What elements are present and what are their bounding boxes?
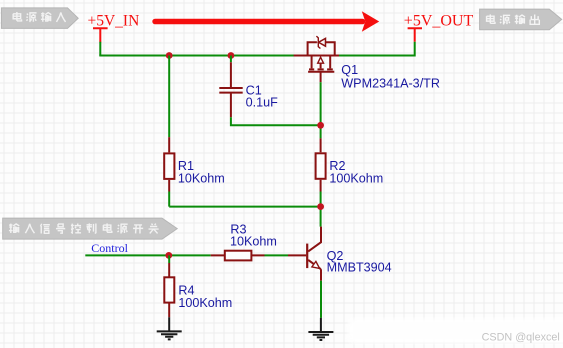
svg-text:0.1uF: 0.1uF — [246, 96, 279, 110]
wire Control (green) — [85, 254, 210, 256]
svg-text:CSDN @qlexcel: CSDN @qlexcel — [482, 331, 560, 343]
svg-text:Control: Control — [91, 241, 128, 255]
resistor R2 — [316, 138, 326, 191]
wire Q2 emitter down (green) — [320, 281, 322, 318]
ground at R4 — [157, 317, 182, 339]
svg-text:WPM2341A-3/TR: WPM2341A-3/TR — [341, 76, 440, 90]
wire R1 top (green) — [168, 56, 170, 138]
capacitor C1 — [219, 62, 242, 117]
wire R3 to Q2 base (green) — [265, 254, 289, 256]
transistor Q1 P-MOSFET — [294, 36, 339, 82]
junction node Control/R4 — [165, 252, 172, 259]
junction node rail/R1 — [166, 52, 173, 59]
wire C1 top stub (green) — [230, 56, 232, 63]
junction node rail/C1 — [228, 52, 235, 59]
wire main top rail left — [99, 55, 294, 57]
junction node gate/C1/R2 — [317, 122, 324, 129]
resistor R1 — [164, 137, 174, 191]
svg-text:100Kohm: 100Kohm — [329, 172, 383, 186]
callout 输入信号控制电源开关 (input signal controls power switch) — [3, 218, 178, 239]
resistor R4 — [164, 263, 174, 317]
watermark panel — [348, 319, 563, 344]
wire R1 bottom to R2 bottom (green) — [169, 192, 320, 227]
svg-text:MMBT3904: MMBT3904 — [327, 261, 392, 275]
svg-text:+5V_OUT: +5V_OUT — [404, 13, 474, 30]
big red flow arrow — [152, 11, 379, 32]
power port +5V_OUT — [404, 13, 474, 42]
callout 电源输出 (power output) — [480, 9, 562, 30]
callout 电源输入 (power input) — [1, 8, 78, 29]
wire main top rail right — [339, 42, 415, 57]
svg-text:10Kohm: 10Kohm — [230, 234, 277, 248]
power port +5V_IN — [88, 13, 140, 43]
svg-text:+5V_IN: +5V_IN — [88, 13, 140, 30]
junction node R2/collector — [317, 203, 324, 210]
wire +5V_IN vertical (green) — [99, 42, 101, 56]
transistor Q2 NPN — [288, 227, 321, 281]
svg-text:10Kohm: 10Kohm — [178, 172, 225, 186]
resistor R3 — [211, 251, 265, 261]
wire R4 top stub (green) — [168, 255, 170, 263]
ground at Q2 emitter — [308, 318, 333, 340]
svg-text:100Kohm: 100Kohm — [178, 296, 232, 310]
svg-text:Q1: Q1 — [341, 63, 358, 77]
wire Q1 gate down (green) — [320, 82, 322, 138]
wire C1 bottom to node (green) — [230, 117, 321, 125]
